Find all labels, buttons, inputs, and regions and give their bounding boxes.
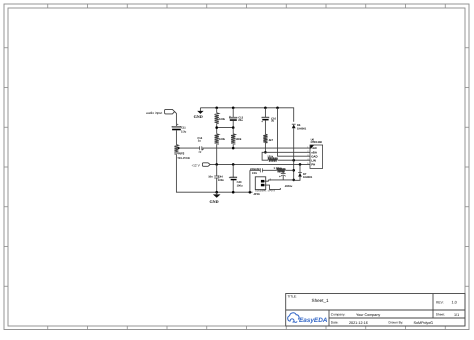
- wire: Zobel drop to ground bus: [249, 170, 251, 192]
- wire: top ground bus: [200, 108, 293, 122]
- svg-text:LOUDSPE.: LOUDSPE.: [255, 190, 267, 193]
- resistor R 100k (upper divider): [216, 108, 218, 113]
- resistor 1 Ohm (Zobel): [277, 168, 286, 172]
- svg-text:100k: 100k: [219, 138, 225, 141]
- capacitor 2000u (output coupling): [279, 170, 293, 188]
- svg-text:Company:: Company:: [331, 313, 346, 317]
- svg-text:4k7: 4k7: [269, 139, 274, 142]
- svg-text:GND: GND: [210, 199, 219, 204]
- resistor R 100k (lower divider): [215, 134, 219, 144]
- svg-text:C11: C11: [181, 127, 186, 130]
- svg-text:TITLE:: TITLE:: [288, 294, 297, 298]
- junction dots on top bus: [215, 107, 278, 110]
- svg-text:100k: 100k: [219, 118, 225, 121]
- svg-text:NTE1380: NTE1380: [311, 141, 323, 144]
- svg-text:audio input: audio input: [146, 111, 162, 115]
- capacitor C11 2.2u (electrolytic): [172, 123, 187, 134]
- wire: RP3 wiper signal to C14 and pin 1: [178, 147, 180, 149]
- wire + node (bias divider): [217, 123, 234, 133]
- svg-text:Drawn By:: Drawn By:: [389, 321, 404, 325]
- svg-text:Date:: Date:: [331, 321, 339, 325]
- wire: audio input to C11: [175, 112, 177, 127]
- wire: pin 2: [265, 151, 310, 153]
- svg-text:JP1b: JP1b: [253, 193, 260, 196]
- svg-text:2.2u: 2.2u: [181, 130, 187, 133]
- svg-text:1 Ohm: 1 Ohm: [274, 167, 283, 170]
- capacitor C15 220mfd (Zobel): [250, 168, 277, 175]
- svg-text:2000u: 2000u: [284, 185, 293, 188]
- wire: feedback L: [262, 152, 268, 160]
- title block frame: [286, 294, 465, 327]
- diode D7 1N4001 (output clamp to +12V): [294, 164, 313, 180]
- svg-text:C15: C15: [252, 172, 257, 175]
- svg-text:TELPOD: TELPOD: [177, 156, 190, 160]
- svg-text:+: +: [279, 175, 281, 179]
- svg-text:220mfd: 220mfd: [250, 168, 260, 171]
- svg-text:+: +: [177, 123, 179, 127]
- wire: ground to pin 3: [278, 108, 311, 156]
- svg-text:RP3: RP3: [179, 152, 185, 156]
- svg-text:1N4001: 1N4001: [297, 127, 307, 130]
- potentiometer RP3 TELPOD: [174, 145, 178, 155]
- svg-text:2021-12-16: 2021-12-16: [349, 321, 368, 325]
- svg-text:1N4001: 1N4001: [303, 176, 313, 179]
- wire: output net down: [293, 160, 295, 180]
- op-amp U6 NTE1380: [307, 138, 322, 168]
- diode D6 1N4001 (output clamp to GND): [292, 124, 307, 160]
- svg-text:PH: PH: [311, 163, 315, 167]
- junction dots on ground bus: [215, 191, 251, 194]
- resistor 150k (feedback): [268, 158, 278, 162]
- svg-text:7P: 7P: [198, 151, 201, 154]
- svg-text:22u: 22u: [238, 119, 243, 122]
- ground symbol (top): [194, 108, 204, 119]
- svg-text:100u: 100u: [237, 185, 243, 188]
- svg-text:+12 V: +12 V: [191, 163, 200, 167]
- svg-text:C44: C44: [218, 176, 223, 179]
- resistor 4k7: [263, 134, 267, 143]
- capacitor C14 1u: [197, 137, 203, 154]
- svg-text:2u: 2u: [271, 120, 274, 123]
- title block text: [288, 294, 460, 325]
- svg-text:Sheet_1: Sheet_1: [312, 298, 330, 303]
- svg-text:SoMPolyoG: SoMPolyoG: [414, 321, 434, 325]
- svg-text:Sheet:: Sheet:: [436, 313, 445, 317]
- wire: pin 4 output: [278, 159, 311, 161]
- capacitor C40 100u (electrolytic): [229, 164, 243, 192]
- EasyEDA logo: [288, 313, 328, 324]
- svg-text:100k: 100k: [235, 138, 241, 141]
- svg-text:1.0: 1.0: [452, 301, 457, 305]
- net flag: audio input: [146, 109, 175, 114]
- ground symbol (bottom): [210, 192, 221, 204]
- svg-text:REV:: REV:: [436, 301, 444, 305]
- svg-text:150k: 150k: [267, 156, 273, 159]
- capacitor C44 100n: [208, 164, 224, 192]
- svg-text:10n: 10n: [208, 176, 213, 179]
- wire: C11 to RP3: [175, 130, 177, 144]
- svg-text:1/1: 1/1: [454, 313, 459, 317]
- resistor R 100k (bias feed): [231, 134, 235, 144]
- svg-text:GND: GND: [194, 114, 203, 119]
- capacitor C16 2u (feedback): [261, 108, 276, 134]
- wire: speaker to output: [268, 179, 293, 181]
- svg-text:100n: 100n: [218, 179, 224, 182]
- net flag +12 V: [191, 163, 210, 168]
- svg-text:EasyEDA: EasyEDA: [299, 317, 328, 324]
- svg-text:1u: 1u: [198, 140, 201, 143]
- svg-text:Your Company: Your Company: [356, 313, 380, 317]
- wire: +12V rail to pin 5: [210, 163, 310, 165]
- connector JP1 loudspeaker: [253, 177, 280, 196]
- svg-text:+: +: [261, 120, 263, 124]
- wire: RP3 bottom to ground bus: [176, 154, 252, 192]
- wire: divider to +12V rail: [216, 144, 218, 164]
- capacitor C13 22u (electrolytic, bias filter): [229, 108, 243, 128]
- svg-text:1 P1+2: 1 P1+2: [268, 190, 276, 193]
